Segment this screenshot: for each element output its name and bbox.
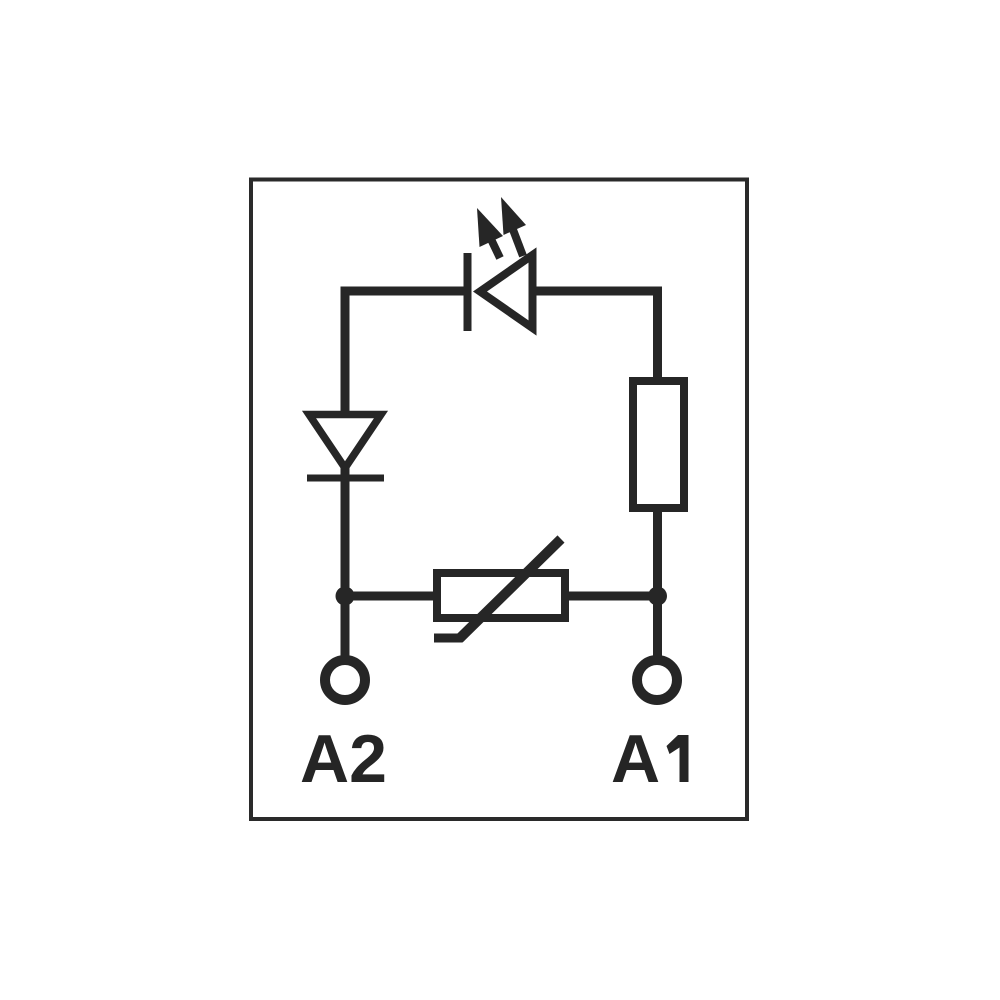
wire: bottom rail right segment xyxy=(565,592,658,601)
junction dot left xyxy=(336,587,355,606)
svg-text:A: A xyxy=(611,721,660,797)
label A1 xyxy=(611,721,689,797)
wire: top rail left segment xyxy=(345,291,470,296)
wire: left junction to terminal A2 xyxy=(341,596,350,657)
wire: left vertical (top corner to diode) xyxy=(341,291,350,415)
wire: bottom rail left segment xyxy=(345,592,437,601)
wire: right junction to terminal A1 xyxy=(653,596,662,657)
varistor xyxy=(434,539,565,639)
terminal A2 xyxy=(325,660,365,700)
wire: diode to left junction xyxy=(341,462,350,596)
junction dot right xyxy=(648,587,667,606)
label A2 xyxy=(300,721,387,797)
wire: top rail right segment xyxy=(534,291,658,296)
wire: right vertical (top corner to resistor) xyxy=(653,291,662,381)
border frame (decorative) xyxy=(251,180,747,820)
svg-text:A2: A2 xyxy=(300,721,387,797)
terminal A1 xyxy=(637,660,677,700)
wire: resistor to right junction xyxy=(653,508,662,596)
diode xyxy=(307,415,384,479)
resistor xyxy=(633,381,684,508)
led xyxy=(468,197,533,331)
